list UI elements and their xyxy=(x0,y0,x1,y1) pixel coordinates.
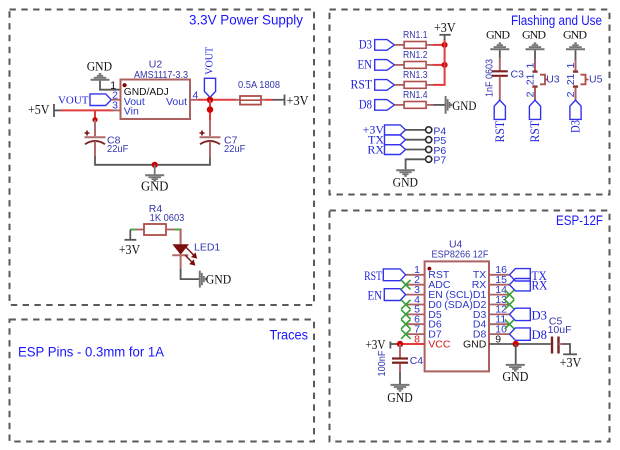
global label D3 (row1) xyxy=(359,37,395,52)
capacitor C4 100nF xyxy=(376,344,423,377)
svg-text:RST: RST xyxy=(351,77,373,92)
svg-text:GND: GND xyxy=(452,98,476,113)
wire VOUT label to pin2 xyxy=(111,99,120,101)
svg-text:1: 1 xyxy=(565,74,577,80)
no-connect X pin11 xyxy=(505,320,514,329)
wire R4 to LED1 xyxy=(179,230,182,239)
svg-text:ESP8266 12F: ESP8266 12F xyxy=(432,249,489,261)
power flag +3V (fuse output) xyxy=(273,93,309,108)
svg-text:D3: D3 xyxy=(532,307,548,322)
svg-text:GND: GND xyxy=(463,338,487,350)
junction RN1.2 xyxy=(442,62,448,68)
power symbol GND bottom xyxy=(141,165,169,194)
global label RST under U3 xyxy=(527,100,542,142)
svg-text:RN1.3: RN1.3 xyxy=(403,69,428,81)
svg-text:+3V: +3V xyxy=(287,93,309,108)
svg-text:1K 0603: 1K 0603 xyxy=(150,212,185,224)
power flag +3V (U4 pin8) xyxy=(366,337,397,352)
svg-text:D3: D3 xyxy=(568,120,583,133)
global label TX (U4 pin16) xyxy=(510,268,548,283)
junction C8 xyxy=(92,117,97,122)
wire GND to U2 pin1 xyxy=(100,81,121,90)
frame box ESP-12F xyxy=(330,211,610,442)
svg-text:Vout: Vout xyxy=(166,96,187,108)
capacitor C5 10uF xyxy=(548,316,572,354)
junction RN1.1 xyxy=(442,42,448,48)
no-connect X pin7 xyxy=(401,329,410,338)
svg-text:VOUT: VOUT xyxy=(203,47,215,75)
power symbol GND under pin9 xyxy=(502,365,528,384)
capacitor C8 22uF xyxy=(85,120,129,158)
svg-text:EN: EN xyxy=(368,288,383,303)
junction C7 xyxy=(207,106,213,112)
wire branch down to C7 xyxy=(209,100,211,122)
svg-text:RST: RST xyxy=(364,268,382,283)
wire LED1 to GND xyxy=(181,269,200,279)
svg-text:2: 2 xyxy=(565,91,577,97)
svg-text:22uF: 22uF xyxy=(107,143,128,155)
capacitor C7 22uF xyxy=(200,120,246,158)
no-connect X pin13 xyxy=(505,300,514,309)
svg-text:GND: GND xyxy=(563,27,587,41)
wire P7 to GND xyxy=(406,159,426,169)
LED LED1 xyxy=(172,238,220,270)
svg-text:GND: GND xyxy=(387,390,413,405)
global label RX (U4 pin15) xyxy=(510,278,549,293)
pin P7 xyxy=(426,155,447,167)
wire U2 Vin branch down xyxy=(94,110,96,119)
svg-text:RN1.4: RN1.4 xyxy=(403,89,428,101)
wire U4 pin9 GND rail xyxy=(489,343,551,345)
svg-text:+3V: +3V xyxy=(434,20,456,35)
net flag +3V (P4) xyxy=(363,123,406,137)
net flag TX (P5) xyxy=(368,132,406,146)
power symbol GND under P7 xyxy=(393,170,418,189)
svg-text:VCC: VCC xyxy=(428,338,451,350)
svg-text:GND: GND xyxy=(486,27,510,41)
global label RST (U4 pin1) xyxy=(364,268,406,283)
power symbol GND right of LED xyxy=(200,271,231,288)
svg-text:ESP Pins - 0.3mm for 1A: ESP Pins - 0.3mm for 1A xyxy=(18,345,164,360)
junction pin9 branch xyxy=(513,341,519,347)
power flag +3V (right of C5) xyxy=(560,354,582,370)
power symbol GND above U3 xyxy=(522,27,546,60)
svg-text:C3: C3 xyxy=(511,69,525,81)
power symbol GND under C4 xyxy=(387,385,413,405)
svg-text:Flashing and Use: Flashing and Use xyxy=(511,13,602,28)
svg-text:+3V: +3V xyxy=(366,337,386,352)
power symbol GND right of RN1.4 xyxy=(446,96,477,114)
no-connect X pin5 xyxy=(401,310,410,319)
svg-text:+3V: +3V xyxy=(560,355,582,370)
svg-text:RST: RST xyxy=(492,121,507,143)
svg-text:3.3V Power Supply: 3.3V Power Supply xyxy=(189,13,303,28)
no-connect X pin14 xyxy=(505,290,514,299)
svg-text:RN1.2: RN1.2 xyxy=(403,49,428,61)
wire C5 to +3V xyxy=(563,344,570,354)
svg-text:Traces: Traces xyxy=(270,328,309,343)
U4 left pin numbers xyxy=(414,264,420,345)
pin P5 xyxy=(426,135,447,147)
svg-text:1nF 0603: 1nF 0603 xyxy=(484,59,496,97)
pin P4 xyxy=(426,125,447,137)
svg-text:GND: GND xyxy=(393,174,418,189)
wire +3V flag to P4 xyxy=(406,129,426,131)
global label D3 under U5 xyxy=(568,100,583,133)
svg-text:RST: RST xyxy=(527,121,542,143)
svg-text:+5V: +5V xyxy=(28,102,50,117)
global label D3 (U4 pin12) xyxy=(510,307,548,322)
svg-text:D8: D8 xyxy=(532,327,548,342)
svg-text:+3V: +3V xyxy=(119,242,141,257)
global label EN (row2) xyxy=(358,57,395,72)
svg-text:D8: D8 xyxy=(359,97,372,112)
svg-text:VOUT: VOUT xyxy=(58,94,89,106)
wire TX flag to P5 xyxy=(406,139,426,141)
junction gnd rail xyxy=(152,162,158,168)
svg-text:U5: U5 xyxy=(589,73,603,85)
svg-text:GND: GND xyxy=(502,369,528,384)
svg-text:RN1.1: RN1.1 xyxy=(403,29,428,41)
no-connect X pin2 xyxy=(401,280,410,289)
global label VOUT (pin2) xyxy=(58,94,111,106)
resistor RN1.2 xyxy=(395,49,435,68)
wire RN1.2 to +3V rail xyxy=(433,64,445,66)
frame box Traces xyxy=(10,320,315,442)
svg-text:100nF: 100nF xyxy=(376,351,388,377)
U4 right pin stubs xyxy=(489,275,510,334)
U4 right pin names xyxy=(444,269,486,350)
wire +5V to U2 Vin xyxy=(61,109,114,111)
resistor RN1.3 xyxy=(395,69,435,88)
junction pin4/VOUT xyxy=(207,97,213,103)
U4 left pin names xyxy=(428,269,451,350)
power flag +5V xyxy=(28,102,61,117)
svg-text:GND: GND xyxy=(522,27,546,41)
button U5 xyxy=(565,60,602,101)
frame box 3.3V Power Supply xyxy=(10,10,315,306)
pin P6 xyxy=(426,145,447,157)
IC U4 ESP8266 12F body xyxy=(425,239,489,372)
power symbol GND above C3 xyxy=(486,27,510,58)
wire RN1.3 up the +3V rail xyxy=(433,39,445,85)
resistor RN1.4 xyxy=(395,89,435,108)
global label D8 (U4 pin10) xyxy=(510,327,548,342)
wire RX flag to P6 xyxy=(406,149,426,151)
button U3 xyxy=(525,60,560,101)
no-connect X pin4 xyxy=(401,300,410,309)
power symbol +3V under R4 xyxy=(119,230,141,257)
svg-text:2: 2 xyxy=(525,79,537,85)
global label RST under C3 xyxy=(492,100,507,142)
fuse 0.5A 1808 xyxy=(234,79,280,105)
global label D8 (row4) xyxy=(359,97,395,112)
power symbol GND above U5 xyxy=(563,27,587,60)
wire +3V to VCC pin8 xyxy=(396,343,425,345)
svg-text:Vin: Vin xyxy=(124,106,139,118)
resistor R4 1K 0603 xyxy=(130,203,184,235)
junction C4 tap xyxy=(397,341,403,347)
svg-text:RX: RX xyxy=(367,142,384,156)
svg-text:GND: GND xyxy=(206,271,231,286)
svg-text:2: 2 xyxy=(525,91,537,97)
svg-text:LED1: LED1 xyxy=(194,242,220,254)
net flag RX (P6) xyxy=(367,142,405,156)
svg-text:EN: EN xyxy=(358,57,373,72)
wire RN1.1 to +3V rail xyxy=(433,44,445,46)
wire C4 to GND xyxy=(399,373,401,385)
svg-text:10uF: 10uF xyxy=(548,324,572,336)
svg-text:C4: C4 xyxy=(410,355,424,367)
capacitor C3 1nF 0603 xyxy=(484,58,525,101)
frame box Flashing and Use xyxy=(330,10,610,195)
svg-text:D3: D3 xyxy=(359,37,372,52)
svg-text:22uF: 22uF xyxy=(224,143,245,155)
wire junction down xyxy=(515,344,517,364)
svg-text:P7: P7 xyxy=(433,155,446,167)
wire C8 to gnd rail xyxy=(95,157,210,165)
global label EN (U4 pin3) xyxy=(368,288,406,303)
flag VOUT vertical (pin4 net) xyxy=(203,47,215,98)
wire fuse to +3V xyxy=(265,99,274,101)
wire RN1.4 to GND xyxy=(434,104,446,106)
no-connect X pin6 xyxy=(401,320,410,329)
wire pin4 to fuse xyxy=(197,99,235,101)
svg-text:GND: GND xyxy=(87,59,112,74)
U4 left pin stubs xyxy=(406,275,425,344)
svg-text:2: 2 xyxy=(565,79,577,85)
regulator U2 AMS1117-3.3 xyxy=(110,59,198,119)
global label RST (row3) xyxy=(351,77,395,92)
svg-text:ESP-12F: ESP-12F xyxy=(556,213,603,228)
svg-text:U3: U3 xyxy=(546,73,560,85)
resistor RN1.1 xyxy=(395,29,435,48)
power flag +3V (RN rail) xyxy=(434,20,456,40)
power symbol GND top xyxy=(87,59,112,80)
svg-text:GND: GND xyxy=(141,179,169,194)
svg-text:0.5A 1808: 0.5A 1808 xyxy=(238,79,280,91)
svg-text:1: 1 xyxy=(525,74,537,80)
svg-text:RX: RX xyxy=(532,278,549,293)
U4 right pin numbers xyxy=(495,264,507,345)
